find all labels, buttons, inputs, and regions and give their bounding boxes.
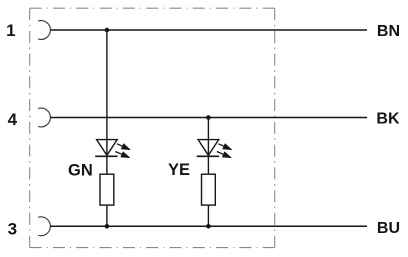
pin 1 socket contact <box>38 21 50 40</box>
LED GN emission arrow upper <box>117 144 130 150</box>
junction node wire3/GN branch <box>105 224 110 229</box>
LED YE emission arrow lower <box>217 152 232 158</box>
LED GN diode triangle <box>97 140 118 156</box>
LED GN cathode bar <box>95 155 117 157</box>
svg-text:GN: GN <box>68 161 93 179</box>
LED GN emission arrow lower <box>115 152 130 158</box>
wire GN branch vertical <box>106 30 108 226</box>
resistor (GN branch) <box>100 174 114 205</box>
resistor (YE branch) <box>202 174 216 205</box>
svg-text:3: 3 <box>8 219 17 238</box>
pin 4 socket contact <box>38 108 50 127</box>
svg-text:BK: BK <box>376 110 400 127</box>
svg-text:YE: YE <box>168 161 190 179</box>
wire 4 to BK <box>50 117 367 119</box>
svg-text:BU: BU <box>377 220 400 237</box>
connector housing outline, left edge <box>29 8 31 247</box>
svg-text:4: 4 <box>8 110 18 129</box>
LED YE emission arrow upper <box>218 144 232 150</box>
wire YE branch vertical <box>207 118 209 227</box>
connector housing outline, bottom edge <box>30 247 275 249</box>
wire 1 to BN <box>50 29 367 31</box>
LED YE diode triangle <box>198 140 219 156</box>
svg-text:BN: BN <box>377 23 400 40</box>
connector housing outline, right edge <box>274 8 276 247</box>
pin 3 socket contact <box>38 217 50 236</box>
connector housing outline (dash-dot box), top edge <box>30 7 275 9</box>
wire 3 to BU <box>50 225 367 227</box>
junction node wire3/YE branch <box>206 224 211 229</box>
junction node wire1/GN branch <box>105 28 110 33</box>
svg-text:1: 1 <box>6 21 15 40</box>
junction node wire4/YE branch <box>206 115 211 120</box>
LED YE cathode bar <box>197 155 219 157</box>
